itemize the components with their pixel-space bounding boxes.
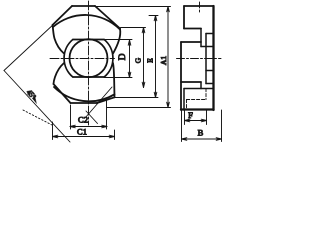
center post circle xyxy=(70,39,108,77)
right neck upper xyxy=(113,29,120,54)
svg-text:A1: A1 xyxy=(159,56,168,65)
thin slash through C2 area xyxy=(86,111,98,124)
extension line top flat to A1 xyxy=(95,6,171,8)
top-right 45deg chamfer xyxy=(95,6,120,29)
45-degree dimension upper ray (chamfer extension) xyxy=(4,26,52,71)
dimension G line xyxy=(143,28,145,88)
dimension C1 arrows xyxy=(53,135,115,138)
side view rung y46.5 xyxy=(201,46,214,48)
side view hidden vertical right xyxy=(205,89,207,100)
left neck upper xyxy=(53,25,65,54)
bottom-right chamfer xyxy=(97,97,115,103)
dimension F arrows xyxy=(185,119,207,122)
svg-text:E: E xyxy=(146,58,155,63)
dimension A1 line xyxy=(167,7,169,108)
dimension D arrows xyxy=(128,40,131,78)
top skirt arc xyxy=(53,15,120,29)
bottom-left chamfer xyxy=(54,84,71,103)
45-degree arrowhead on lower ray xyxy=(32,96,36,103)
extension line E bottom xyxy=(115,97,158,99)
45-degree second leg near C2 xyxy=(85,87,112,118)
side view rung y70.5 xyxy=(206,70,214,72)
dimension B arrows xyxy=(182,138,222,141)
side view rung y83.5 xyxy=(206,83,214,85)
dimension E arrows xyxy=(154,16,157,98)
dimension C1 line xyxy=(53,136,115,138)
dimension G arrows xyxy=(142,28,145,88)
side view middle block bottom xyxy=(181,81,201,83)
45-degree dimension lower ray xyxy=(4,71,70,143)
extension line C2 right xyxy=(106,100,108,129)
dimension E line xyxy=(155,16,157,98)
side view hidden hole horizontal xyxy=(187,99,207,101)
extension line D top (chord) xyxy=(104,39,132,41)
side view bottom block left edge xyxy=(183,89,185,111)
svg-text:D: D xyxy=(118,53,128,60)
horizontal centerline main view xyxy=(50,58,115,60)
dimension F extension right xyxy=(206,110,208,125)
dimension F line xyxy=(185,120,207,122)
bottom skirt arc xyxy=(54,87,115,101)
side view bottom edge thick xyxy=(181,108,214,110)
vertical centerline main view xyxy=(88,1,90,125)
dimension B extension right xyxy=(221,110,223,142)
side view hidden hole vertical left xyxy=(186,100,188,109)
side view left edge x181 xyxy=(180,42,182,110)
left neck lower xyxy=(54,63,65,84)
dotted construction segment lower left xyxy=(23,110,52,125)
side view right edge thick xyxy=(212,6,214,110)
dimension C2 arrows xyxy=(70,125,107,128)
bottom cap flat xyxy=(71,102,98,104)
svg-text:C2: C2 xyxy=(78,115,88,125)
side view bottom block top xyxy=(184,88,214,90)
svg-text:C1: C1 xyxy=(77,127,87,137)
side view step vertical x201 lower xyxy=(200,82,202,89)
side view horizontal centerline xyxy=(177,58,222,60)
extension line D bottom (chord) xyxy=(104,77,132,79)
svg-text:F: F xyxy=(188,110,193,120)
extension C1 right xyxy=(114,130,116,140)
dimension C2 line xyxy=(70,126,107,128)
right neck lower xyxy=(113,63,115,97)
svg-text:B: B xyxy=(198,128,204,138)
extension C2 left xyxy=(70,105,72,129)
side view top block left edge xyxy=(183,6,185,29)
top-left 45deg chamfer xyxy=(53,6,73,25)
side view top block center tick xyxy=(199,2,201,12)
extension line A1 bottom xyxy=(107,107,171,109)
dimension D line xyxy=(129,40,131,78)
svg-text:G: G xyxy=(134,57,143,63)
side view inner vertical x206 xyxy=(205,34,207,84)
top window chord xyxy=(73,39,104,41)
bottom window chord xyxy=(73,76,104,78)
left cavity arc xyxy=(64,40,73,78)
right cavity arc xyxy=(104,40,113,78)
dimension F extension left xyxy=(184,110,186,125)
side view step y28.5 xyxy=(184,28,201,30)
extension C1 left xyxy=(52,122,54,140)
side view rung y33.5 xyxy=(206,33,214,35)
side view step vertical x201 upper xyxy=(200,29,202,47)
dimension A1 arrows xyxy=(167,7,170,108)
side view top edge xyxy=(184,5,214,7)
dimension B line xyxy=(182,138,222,140)
extension line E top xyxy=(149,15,158,17)
side view middle block top xyxy=(181,41,201,43)
dimension B extension left xyxy=(181,110,183,142)
extension line G top xyxy=(121,27,146,29)
main view outline: top cap flat xyxy=(72,5,95,7)
